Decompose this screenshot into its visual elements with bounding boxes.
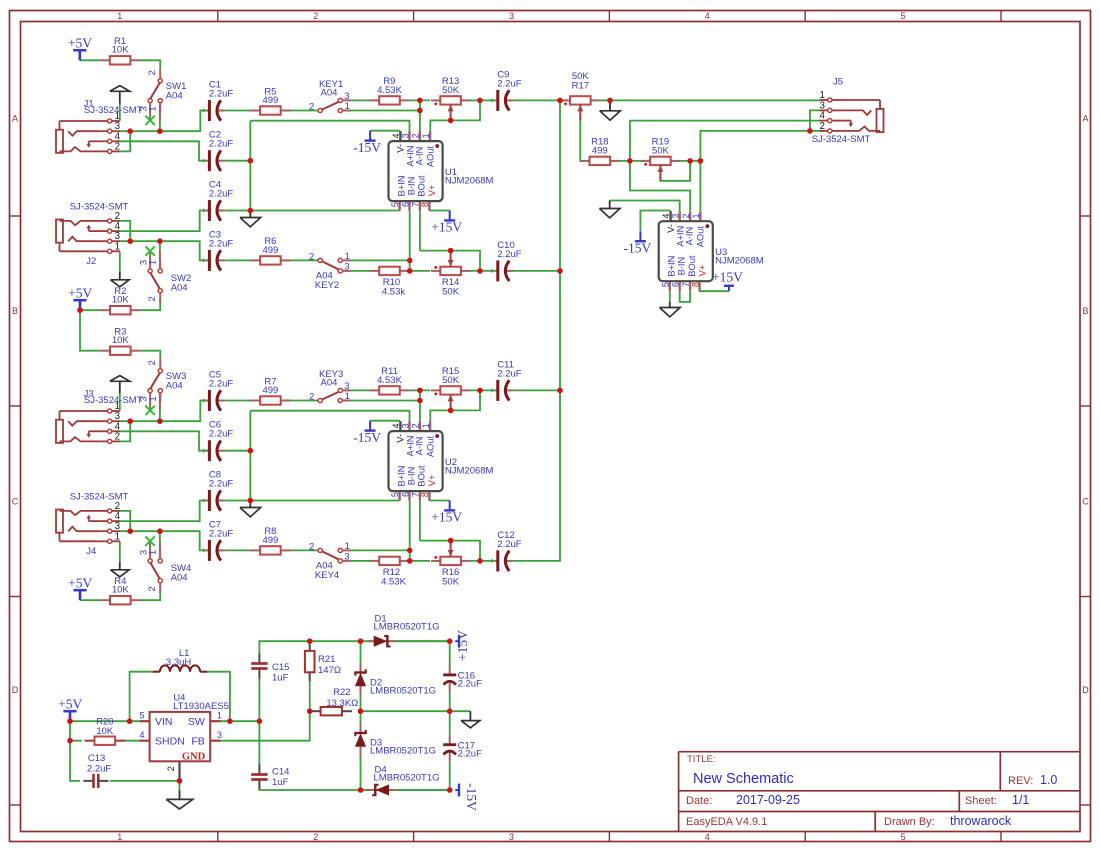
- svg-text:R21: R21: [318, 654, 335, 665]
- potentiometer R16: [431, 541, 470, 588]
- svg-text:AOut: AOut: [426, 145, 436, 167]
- wire R9 to R13: [410, 99, 430, 101]
- ground stem: [119, 91, 121, 103]
- wire J4 pin3 row: [120, 531, 206, 550]
- svg-text:A04: A04: [321, 88, 338, 99]
- connector J1: [56, 111, 121, 153]
- svg-text:1: 1: [115, 241, 120, 252]
- power flag +5V: [58, 696, 82, 721]
- svg-text:1: 1: [345, 541, 350, 552]
- capacitor C11: [491, 359, 521, 401]
- svg-text:TITLE:: TITLE:: [687, 754, 716, 765]
- svg-text:-15V: -15V: [464, 783, 479, 811]
- svg-text:10K: 10K: [112, 295, 130, 306]
- junction: [307, 708, 313, 714]
- wire J1 pin2 to pin3 net: [120, 131, 130, 151]
- svg-text:B+IN: B+IN: [667, 256, 677, 277]
- svg-text:2: 2: [147, 586, 158, 591]
- junction: [807, 128, 813, 134]
- wire KEY3 pin1 row: [351, 400, 420, 402]
- wire SW pin to C15 node: [221, 720, 260, 722]
- resistor R6: [250, 236, 291, 264]
- svg-text:+15V: +15V: [455, 630, 470, 661]
- wire J3 gnd stem: [119, 393, 121, 411]
- switch KEY3: [309, 369, 351, 403]
- wire C15 node up: [258, 678, 260, 721]
- junction: [127, 528, 133, 534]
- resistor R3: [100, 327, 141, 355]
- svg-text:2.2uF: 2.2uF: [209, 238, 233, 249]
- svg-text:SJ-3524-SMT: SJ-3524-SMT: [70, 492, 129, 503]
- wire R21 bottom: [309, 681, 311, 711]
- svg-text:B-IN: B-IN: [406, 177, 416, 196]
- inductor L1: [153, 648, 208, 672]
- wire SW4 pin1 up: [159, 531, 161, 551]
- svg-text:NJM2068M: NJM2068M: [445, 465, 494, 476]
- junction: [248, 158, 254, 164]
- svg-text:50K: 50K: [652, 145, 670, 156]
- svg-text:A-IN: A-IN: [414, 437, 424, 456]
- svg-text:-15V: -15V: [353, 140, 381, 155]
- wire R19 wiper loop: [660, 161, 690, 181]
- capacitor C7: [203, 519, 233, 561]
- svg-text:10K: 10K: [112, 45, 130, 56]
- wire C8 right: [225, 500, 250, 502]
- resistor R5: [250, 86, 291, 114]
- wire SW2 pin1 up: [159, 241, 161, 261]
- ground: [166, 790, 193, 809]
- wire R13 to C9: [470, 99, 494, 101]
- wire C17 top: [449, 711, 451, 735]
- svg-text:A: A: [12, 114, 18, 124]
- svg-text:2: 2: [147, 360, 158, 365]
- svg-text:SJ-3524-SMT: SJ-3524-SMT: [70, 202, 129, 213]
- wire SW2 pin2 to R2: [141, 301, 161, 311]
- wire C2 right: [225, 160, 250, 162]
- svg-text:1: 1: [115, 531, 120, 542]
- svg-text:3: 3: [509, 832, 514, 842]
- power flag -15V: [624, 231, 652, 255]
- resistor R1: [100, 36, 141, 64]
- svg-text:SHDN: SHDN: [155, 735, 185, 747]
- svg-text:LMBR0520T1G: LMBR0520T1G: [370, 746, 436, 757]
- junction: [257, 718, 263, 724]
- power flag -15V: [353, 421, 381, 445]
- svg-text:1: 1: [148, 396, 159, 401]
- svg-text:4: 4: [705, 832, 710, 842]
- wire AOut loop: [430, 100, 480, 131]
- wire stub: [159, 542, 161, 559]
- wire J2 pin2 down: [120, 221, 130, 241]
- svg-text:3: 3: [509, 11, 514, 21]
- power flag +5V: [68, 36, 92, 61]
- svg-text:B: B: [1082, 306, 1088, 316]
- junction: [447, 638, 453, 644]
- wire left down to C13: [70, 741, 80, 781]
- power flag +5V: [68, 575, 92, 600]
- wire B+IN row: [250, 210, 399, 212]
- resistor R9: [369, 76, 410, 104]
- svg-text:2.2uF: 2.2uF: [209, 189, 233, 200]
- wire J5 pin4 to R18 node: [630, 121, 820, 161]
- svg-text:8: 8: [420, 202, 430, 207]
- wire A+IN horizontal: [250, 121, 409, 132]
- junction: [157, 528, 163, 534]
- svg-text:C15: C15: [272, 662, 289, 673]
- svg-text:A04: A04: [171, 282, 188, 293]
- wire D1 to +15V node: [397, 640, 450, 642]
- wire J1 gnd stem: [119, 103, 121, 121]
- svg-text:8: 8: [690, 282, 700, 287]
- switch SW1: [138, 69, 186, 126]
- svg-text:50K: 50K: [442, 85, 460, 96]
- wire U2 A+IN horizontal: [250, 411, 409, 422]
- capacitor C13: [83, 753, 111, 788]
- wire R18 to R19: [610, 160, 645, 162]
- svg-text:7: 7: [681, 282, 691, 287]
- wire C14 node down: [258, 721, 260, 765]
- svg-text:A04: A04: [171, 572, 188, 583]
- ground: [110, 376, 130, 382]
- wire R6 to KEY2: [281, 259, 318, 261]
- wire BOut to R14 wiper: [420, 251, 480, 271]
- svg-text:1: 1: [691, 213, 701, 218]
- junction: [227, 718, 233, 724]
- wire U2 +15V: [429, 500, 449, 502]
- svg-text:6: 6: [400, 492, 410, 497]
- svg-text:+15V: +15V: [431, 510, 462, 525]
- junction: [417, 108, 423, 114]
- svg-text:-15V: -15V: [353, 430, 381, 445]
- svg-text:2.2uF: 2.2uF: [497, 368, 521, 379]
- resistor R20: [85, 717, 126, 745]
- resistor R7: [250, 376, 291, 404]
- capacitor C5: [203, 370, 233, 412]
- wire J2 gnd stem: [119, 251, 121, 272]
- svg-text:10K: 10K: [112, 335, 130, 346]
- ground: [600, 100, 621, 120]
- svg-text:2: 2: [411, 423, 421, 428]
- connector J5: [819, 90, 883, 133]
- svg-text:1: 1: [345, 101, 350, 112]
- svg-text:50K: 50K: [442, 287, 460, 298]
- wire R14 to C10: [470, 270, 494, 272]
- svg-text:EasyEDA V4.9.1: EasyEDA V4.9.1: [686, 816, 767, 828]
- diode D2: [354, 664, 436, 697]
- wire R8 to KEY4: [281, 549, 318, 551]
- no-connect X: [145, 246, 154, 255]
- svg-text:1.0: 1.0: [1040, 773, 1057, 787]
- wire KEY1 pin1 row: [351, 110, 420, 112]
- wire A-IN vertical: [419, 100, 421, 131]
- svg-text:Date:: Date:: [686, 795, 712, 807]
- power flag -15V: [455, 783, 479, 811]
- junction: [448, 408, 454, 414]
- svg-text:4.53K: 4.53K: [377, 375, 402, 386]
- wire R3 to SW3 pin2: [141, 351, 161, 359]
- svg-text:7: 7: [411, 202, 421, 207]
- wire gnd node to J5 pin1: [610, 99, 820, 101]
- svg-text:LMBR0520T1G: LMBR0520T1G: [370, 686, 436, 697]
- svg-text:2.2uF: 2.2uF: [458, 679, 482, 690]
- svg-text:throwarock: throwarock: [950, 814, 1012, 828]
- potentiometer R17: [561, 71, 600, 120]
- wire D2 top: [360, 641, 362, 663]
- svg-text:A04: A04: [166, 381, 183, 392]
- junction: [127, 418, 133, 424]
- wire C16 top: [449, 641, 451, 665]
- wire C6 right: [225, 450, 250, 452]
- wire stub: [159, 393, 161, 410]
- svg-text:2: 2: [309, 102, 314, 113]
- capacitor C17: [443, 735, 482, 762]
- svg-text:5: 5: [901, 11, 906, 21]
- wire U3 A+IN to gnd: [610, 201, 680, 211]
- svg-text:NJM2068M: NJM2068M: [445, 175, 494, 186]
- svg-text:2.2uF: 2.2uF: [209, 379, 233, 390]
- svg-text:7: 7: [411, 492, 421, 497]
- switch KEY2: [309, 251, 351, 291]
- diode D1: [367, 613, 439, 647]
- svg-text:A: A: [1082, 114, 1088, 124]
- wire R11 to R15: [410, 389, 430, 391]
- svg-text:499: 499: [262, 245, 278, 256]
- svg-text:3: 3: [400, 423, 410, 428]
- wire J2 pin3 row: [120, 241, 206, 260]
- svg-text:5: 5: [390, 202, 400, 207]
- potentiometer R19: [641, 137, 680, 181]
- svg-text:2.2uF: 2.2uF: [497, 249, 521, 260]
- svg-text:2: 2: [313, 11, 318, 21]
- wire KEY4 pin3 to R12: [351, 560, 370, 562]
- wire R10 to R14: [410, 270, 430, 272]
- wire SW1 pin1 to J1 pin3 net: [159, 112, 161, 132]
- ground: [111, 562, 130, 577]
- power flag +15V: [712, 269, 743, 291]
- svg-text:6: 6: [671, 282, 681, 287]
- junction: [407, 258, 413, 264]
- svg-text:FB: FB: [191, 735, 204, 747]
- wire KEY4 pin1 row: [351, 549, 410, 551]
- wire +5V to R1: [80, 59, 100, 61]
- svg-text:A04: A04: [166, 91, 183, 102]
- junction: [477, 98, 483, 104]
- wire C5 to R7: [225, 400, 251, 402]
- junction: [447, 708, 453, 714]
- connector J3: [56, 401, 121, 444]
- svg-text:3.3uH: 3.3uH: [166, 657, 191, 668]
- svg-text:5: 5: [139, 711, 144, 721]
- svg-text:BOut: BOut: [417, 175, 427, 197]
- no-connect X: [145, 536, 154, 545]
- switch KEY4: [309, 541, 351, 581]
- junction: [407, 558, 413, 564]
- switch KEY1: [309, 79, 351, 113]
- wire C7 to R8: [225, 549, 251, 551]
- junction: [157, 418, 163, 424]
- potentiometer R13: [431, 76, 470, 120]
- connector J4: [56, 501, 121, 544]
- power flag -15V: [353, 131, 381, 155]
- wire U2 BOut down: [419, 501, 421, 541]
- junction: [477, 558, 483, 564]
- wire C17 bottom: [449, 762, 451, 790]
- svg-text:4.53K: 4.53K: [381, 577, 406, 588]
- svg-text:SJ-3524-SMT: SJ-3524-SMT: [812, 134, 871, 145]
- wire C2 C4 reference vertical: [249, 121, 251, 211]
- capacitor C2: [203, 130, 233, 172]
- svg-text:2: 2: [681, 213, 691, 218]
- wire U2 B+IN row: [250, 500, 399, 502]
- wire U2 B-IN down: [409, 501, 411, 561]
- junction: [607, 98, 613, 104]
- svg-text:2: 2: [309, 252, 314, 263]
- capacitor C6: [203, 420, 233, 462]
- title block: [679, 752, 1080, 832]
- svg-text:SJ-3524-SMT: SJ-3524-SMT: [84, 105, 143, 116]
- svg-text:AOut: AOut: [426, 435, 436, 457]
- junction: [557, 98, 563, 104]
- no-connect X: [145, 116, 154, 125]
- junction: [698, 158, 704, 164]
- junction: [248, 208, 254, 214]
- wire D2 bottom: [360, 694, 362, 711]
- svg-text:+15V: +15V: [431, 220, 462, 235]
- wire C6 C8 reference vertical: [249, 411, 251, 501]
- svg-text:1: 1: [421, 423, 431, 428]
- svg-text:6: 6: [400, 202, 410, 207]
- wire C13 to GND dot: [110, 780, 180, 782]
- wire KEY3 pin3 to R11: [351, 389, 370, 391]
- svg-text:2: 2: [115, 141, 120, 152]
- svg-text:2: 2: [309, 542, 314, 553]
- svg-text:V-: V-: [396, 434, 406, 443]
- wire R15 to C11: [470, 389, 494, 391]
- junction: [67, 718, 73, 724]
- capacitor C1: [203, 80, 233, 122]
- switch SW2: [138, 246, 191, 303]
- ground: [240, 501, 261, 517]
- svg-text:C: C: [1082, 497, 1089, 507]
- svg-text:BOut: BOut: [417, 465, 427, 487]
- svg-text:2: 2: [309, 392, 314, 403]
- svg-text:NJM2068M: NJM2068M: [715, 256, 764, 267]
- svg-text:B-IN: B-IN: [677, 257, 687, 276]
- switch SW3: [138, 359, 186, 416]
- svg-text:V+: V+: [427, 185, 437, 197]
- svg-text:C14: C14: [272, 767, 289, 778]
- wire U2 A-IN vertical: [419, 390, 421, 421]
- wire C9 to bus: [513, 99, 560, 101]
- power flag +15V: [455, 630, 470, 661]
- wire U1 +15V: [429, 210, 449, 212]
- wire R7 to KEY3: [281, 400, 318, 402]
- svg-text:2: 2: [147, 296, 158, 301]
- svg-text:SW: SW: [188, 716, 205, 728]
- svg-text:1uF: 1uF: [272, 777, 289, 788]
- svg-text:5: 5: [901, 832, 906, 842]
- op-amp U2: [389, 421, 494, 501]
- svg-text:Sheet:: Sheet:: [965, 795, 997, 807]
- svg-text:J4: J4: [86, 546, 96, 557]
- junction: [448, 248, 454, 254]
- wire D3 top: [360, 711, 362, 724]
- svg-text:2: 2: [147, 70, 158, 75]
- junction: [248, 498, 254, 504]
- wire U3 V+ to +15V: [700, 290, 729, 292]
- svg-text:3: 3: [400, 133, 410, 138]
- junction: [358, 638, 364, 644]
- wire KEY2 pin3 to R10: [351, 270, 370, 272]
- ground: [240, 211, 261, 227]
- power flag +15V: [431, 211, 462, 235]
- svg-text:5: 5: [660, 282, 670, 287]
- svg-text:+5V: +5V: [68, 575, 92, 590]
- wire +5V to VIN row: [70, 720, 139, 722]
- svg-text:1: 1: [148, 260, 159, 265]
- svg-text:R22: R22: [333, 687, 350, 698]
- wire U2 AOut loop: [430, 390, 480, 421]
- wire bottom bus right: [361, 789, 450, 791]
- capacitor C4: [203, 180, 233, 222]
- svg-text:New Schematic: New Schematic: [693, 771, 794, 787]
- junction: [627, 158, 633, 164]
- capacitor C9: [491, 69, 521, 111]
- wire stub: [159, 103, 161, 120]
- svg-text:1uF: 1uF: [272, 673, 289, 684]
- capacitor C15: [251, 654, 289, 684]
- power flag +15V: [431, 501, 462, 525]
- svg-text:-15V: -15V: [624, 241, 652, 256]
- svg-text:1: 1: [345, 391, 350, 402]
- wire R5 to KEY1: [281, 110, 318, 112]
- wire C3 to R6: [225, 259, 251, 261]
- capacitor C12: [491, 530, 521, 572]
- diode D3: [354, 724, 436, 757]
- junction: [157, 128, 163, 134]
- svg-text:+5V: +5V: [68, 36, 92, 51]
- junction: [477, 388, 483, 394]
- svg-text:B+IN: B+IN: [396, 176, 406, 197]
- ground: [660, 302, 681, 317]
- junction: [417, 98, 423, 104]
- svg-text:4.53K: 4.53K: [377, 85, 402, 96]
- wire BOut to R16 wiper: [420, 541, 480, 561]
- capacitor C14: [251, 765, 289, 790]
- resistor R8: [250, 526, 291, 554]
- junction: [448, 538, 454, 544]
- wire bus to R17: [560, 99, 570, 101]
- wire mid row: [361, 710, 471, 712]
- svg-text:KEY4: KEY4: [315, 570, 339, 581]
- svg-text:2: 2: [115, 431, 120, 442]
- svg-text:+5V: +5V: [58, 696, 82, 711]
- svg-text:50K: 50K: [442, 577, 460, 588]
- capacitor C10: [491, 240, 521, 282]
- svg-text:3: 3: [671, 213, 681, 218]
- svg-text:GND: GND: [182, 751, 206, 762]
- junction: [248, 448, 254, 454]
- svg-text:V-: V-: [666, 224, 676, 233]
- svg-text:J5: J5: [833, 76, 843, 87]
- wire SW3 pin1 down: [159, 402, 161, 422]
- wire L1 right to SW: [207, 672, 230, 722]
- svg-text:2.2uF: 2.2uF: [209, 89, 233, 100]
- potentiometer R15: [431, 366, 470, 410]
- wire top bus: [310, 640, 450, 642]
- wire SW4 pin2 to R4: [141, 591, 161, 601]
- wire R12 to R16: [410, 560, 430, 562]
